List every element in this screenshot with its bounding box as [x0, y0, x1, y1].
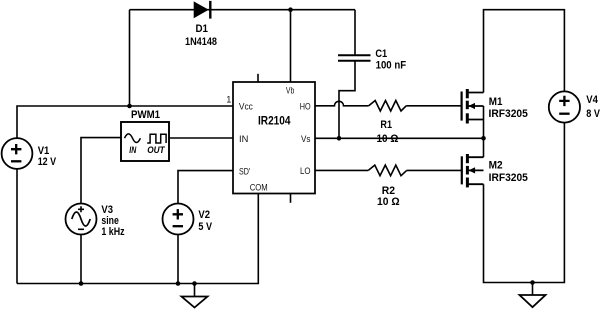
svg-text:COM: COM	[250, 182, 268, 192]
wire: Vb pin riser	[290, 10, 292, 82]
svg-text:SD': SD'	[239, 167, 250, 177]
svg-text:IRF3205: IRF3205	[489, 172, 528, 184]
pin stub (bottom, unconnected)	[290, 194, 292, 203]
svg-text:Vs: Vs	[301, 134, 311, 144]
wire: SD' pin to V2 plus	[178, 171, 233, 204]
svg-text:HO: HO	[300, 101, 311, 111]
svg-text:V2: V2	[198, 209, 210, 221]
pin stub (top, unconnected)	[257, 74, 259, 82]
svg-text:IRF3205: IRF3205	[489, 108, 528, 120]
svg-text:8 V: 8 V	[586, 108, 600, 120]
junction: C1 branch / Vs	[337, 136, 342, 141]
junction: ground symbol tap	[192, 281, 197, 286]
voltage source V1	[2, 138, 33, 169]
voltage source V2	[163, 204, 194, 235]
svg-text:V4: V4	[586, 94, 598, 106]
svg-text:1N4148: 1N4148	[185, 36, 217, 48]
svg-text:LO: LO	[300, 166, 311, 176]
svg-text:D1: D1	[196, 23, 209, 35]
wire: V1 plus lead to IC Vcc pin	[17, 106, 233, 138]
svg-text:PWM1: PWM1	[131, 109, 160, 121]
wire: LO pin to R2	[315, 169, 368, 171]
wire: HO pin to R1 (hop over C1 branch)	[315, 101, 369, 106]
wire: Vs pin to half-bridge node	[315, 137, 484, 139]
IC U1 IR2104 body	[233, 82, 315, 194]
wire: V2 minus lead to ground bus	[177, 235, 179, 284]
svg-text:10 Ω: 10 Ω	[377, 196, 400, 208]
svg-text:IR2104: IR2104	[258, 113, 291, 127]
capacitor C1	[338, 55, 371, 61]
svg-text:100 nF: 100 nF	[376, 60, 407, 72]
voltage source V4	[549, 91, 580, 122]
wire: ground bus and COM pin drop	[17, 194, 258, 284]
svg-text:1: 1	[226, 95, 231, 105]
wire: riser from Vcc node up to bootstrap top rail	[129, 10, 131, 106]
junction: riser / Vcc wire	[127, 104, 132, 109]
wire: M2 source down and across to V4 minus	[484, 123, 565, 283]
svg-text:IN: IN	[129, 145, 137, 155]
wire: M2 drain up to half-bridge node	[483, 138, 485, 157]
junction: V3 / ground bus	[79, 281, 84, 286]
PWM1 block	[121, 122, 169, 161]
wire: V3 plus lead up and right to PWM1 IN	[81, 138, 121, 204]
resistor R1	[369, 101, 407, 112]
ground symbol (right)	[520, 283, 546, 308]
svg-text:OUT: OUT	[147, 145, 165, 155]
wire: PWM1 OUT to IC IN pin	[169, 137, 233, 139]
svg-text:5 V: 5 V	[198, 221, 212, 233]
svg-text:M1: M1	[489, 96, 503, 108]
junction: V2 / ground bus	[176, 281, 181, 286]
wire: M1 drain up and across to V4 plus	[484, 10, 565, 93]
junction: ground tap (right)	[530, 280, 535, 285]
wire: top bootstrap rail (diode net)	[130, 9, 356, 11]
svg-text:Vcc: Vcc	[239, 101, 253, 111]
wire: C1 top lead turning down	[354, 10, 356, 56]
svg-text:Vb: Vb	[286, 86, 294, 96]
transistor M2 (NMOS)	[462, 154, 484, 187]
voltage source V3 (sine)	[66, 204, 97, 235]
wire: R1 to M1 gate	[406, 105, 461, 107]
svg-text:IN: IN	[239, 134, 248, 144]
wire: R2 to M2 gate	[407, 169, 462, 171]
svg-text:12 V: 12 V	[38, 156, 57, 168]
wire: C1 bottom lead down to Vs node	[339, 61, 355, 139]
resistor R2	[368, 165, 406, 176]
wire: V3 minus lead to ground bus	[80, 235, 82, 284]
wire: V1 minus lead down to ground bus	[16, 169, 18, 284]
svg-text:C1: C1	[375, 48, 387, 60]
ground symbol (left)	[182, 284, 208, 308]
transistor M1 (NMOS)	[462, 89, 484, 124]
svg-text:1 kHz: 1 kHz	[101, 226, 125, 238]
svg-text:R1: R1	[380, 119, 392, 131]
junction: Vb riser / top rail	[288, 7, 293, 12]
wire: M1 source/body down to half-bridge node	[483, 106, 485, 138]
diode D1	[194, 1, 211, 19]
junction: Vs / M1 source / M2 drain	[481, 136, 486, 141]
svg-text:M2: M2	[489, 160, 503, 172]
